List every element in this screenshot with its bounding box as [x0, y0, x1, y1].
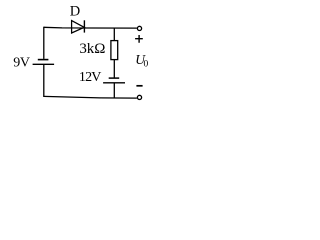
svg-text:D: D — [70, 4, 80, 20]
wire top: left corner to + terminal (slight scan sag) — [44, 26, 137, 29]
wire left vertical upper (corner to 9V battery) — [43, 27, 45, 59]
wire resistor top stub — [113, 28, 115, 41]
svg-text:0: 0 — [144, 59, 149, 69]
wire left vertical lower (9V battery to bottom wire) — [43, 64, 45, 97]
battery V2 12V short plate — [109, 77, 120, 79]
svg-text:12V: 12V — [79, 70, 101, 85]
wire bottom: left corner to - terminal (slight scan sag) — [44, 96, 137, 98]
battery V2 12V long plate — [103, 82, 125, 84]
wire resistor bottom stub — [113, 60, 115, 78]
diode D cathode bar — [83, 20, 85, 32]
resistor R 3k ohm body — [111, 41, 118, 60]
terminal circle top (+ output) — [137, 26, 141, 30]
svg-text:9V: 9V — [13, 56, 30, 71]
minus sign — [136, 85, 142, 87]
battery V1 9V long plate — [33, 63, 55, 65]
svg-text:3kΩ: 3kΩ — [79, 41, 105, 57]
diode D triangle (anode) — [72, 21, 85, 33]
plus sign — [135, 35, 143, 43]
terminal circle bottom (- output) — [137, 95, 141, 99]
wire 12V battery to bottom wire — [113, 83, 115, 98]
battery V1 9V short plate — [38, 59, 49, 61]
